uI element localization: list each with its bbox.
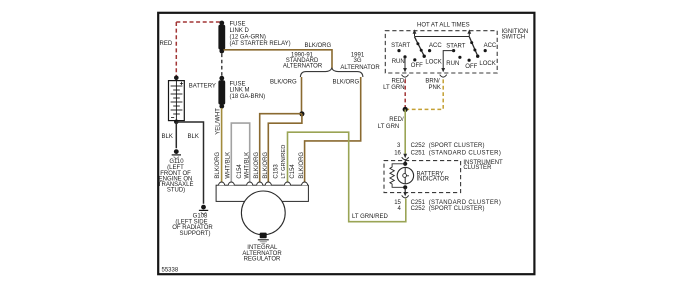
svg-text:55338: 55338 [162, 268, 179, 274]
svg-text:BLK: BLK [162, 134, 173, 140]
svg-text:(AT STARTER RELAY): (AT STARTER RELAY) [230, 41, 291, 47]
switch 1 contact OFF [411, 58, 423, 69]
label BRN/PNK [425, 79, 440, 91]
pin label BLK/ORG 10 (rotated) [299, 152, 305, 179]
wire BLK/ORG junction to pin A [260, 114, 302, 183]
pin label WHT/BLK 2 (rotated) [225, 152, 231, 179]
ground G110 [172, 149, 181, 159]
pin cup BLK/ORG A [257, 182, 263, 185]
svg-text:OFF: OFF [465, 64, 477, 70]
svg-text:BRN/: BRN/ [425, 79, 440, 85]
svg-text:FUSE: FUSE [230, 81, 246, 87]
label RED [160, 41, 173, 47]
wire LT GRN/RED alternator to instrument cluster [288, 132, 406, 222]
label G110 [158, 159, 194, 193]
wire switch feed bus [415, 36, 470, 38]
switch 1 contact RUN [392, 55, 407, 65]
wire out of cluster [404, 187, 406, 192]
switch 1 output wire and arrow [403, 57, 407, 72]
wire BLK/ORG from fuse D to option brace [224, 50, 333, 70]
wire BLK battery to G110 [175, 122, 177, 148]
svg-text:BLK: BLK [188, 134, 199, 140]
svg-text:16: 16 [394, 150, 401, 156]
svg-text:(SPORT CLUSTER): (SPORT CLUSTER) [429, 206, 485, 212]
pin label C153 7 (rotated) [273, 164, 279, 179]
svg-text:STUD): STUD) [167, 188, 185, 194]
svg-text:C251: C251 [411, 200, 426, 206]
svg-text:(STANDARD CLUSTER): (STANDARD CLUSTER) [429, 200, 502, 206]
svg-text:FUSE: FUSE [230, 21, 246, 27]
svg-text:BLK/ORG: BLK/ORG [215, 152, 221, 179]
feed arrow left [413, 29, 417, 36]
node cluster top junction [403, 162, 407, 166]
svg-text:RED/: RED/ [389, 117, 404, 123]
svg-text:RED: RED [160, 41, 173, 47]
label IGNITION SWITCH [502, 29, 529, 40]
feed arrow right [467, 29, 471, 36]
pin label C154 3 (rotated) [237, 164, 243, 179]
pin 3 C252 sport cluster [397, 143, 485, 149]
connector cup below switch 1 [402, 75, 409, 78]
wire WHT/BLK jumper loop [231, 123, 249, 183]
svg-text:LT GRN: LT GRN [383, 85, 404, 91]
label fuse link D [230, 21, 291, 47]
SECTION: cluster [384, 143, 503, 212]
svg-text:(STANDARD CLUSTER): (STANDARD CLUSTER) [429, 150, 502, 156]
svg-text:START: START [446, 44, 465, 50]
svg-text:C154: C154 [237, 164, 243, 179]
svg-text:LT GRN/RED: LT GRN/RED [281, 145, 287, 179]
connector cup below switch 2 [440, 75, 447, 78]
label RED/LT GRN lower [378, 117, 404, 130]
label fuse link M [230, 81, 266, 100]
pin 4 C252 sport cluster [398, 206, 485, 212]
pin cup WHT/BLK left [228, 182, 234, 185]
svg-text:15: 15 [394, 200, 401, 206]
node junction RED/LT GRN + BRN/PNK [403, 107, 408, 112]
switch 1 contact START [391, 43, 410, 52]
svg-text:BLK/ORG: BLK/ORG [270, 79, 297, 85]
svg-text:WHT/BLK: WHT/BLK [244, 152, 250, 179]
svg-text:RUN: RUN [392, 59, 405, 65]
option brace [300, 68, 363, 77]
pin cup BLK/ORG B [265, 182, 271, 185]
svg-text:OFF: OFF [411, 63, 423, 69]
svg-text:LT GRN: LT GRN [378, 124, 399, 130]
svg-text:BLK/ORG: BLK/ORG [305, 43, 332, 49]
switch 2 output wire and arrow [441, 51, 453, 73]
connector cup below cluster [402, 195, 409, 198]
connector arrow out of cluster [403, 192, 407, 196]
label BATTERY [189, 83, 216, 89]
alternator body [241, 191, 285, 235]
svg-text:(18 GA-BRN): (18 GA-BRN) [230, 94, 266, 100]
wire RED dashed battery feed (vertical) [175, 22, 177, 77]
wire dashed link between fuse D and fuse M [221, 54, 223, 76]
label BLK left [162, 134, 173, 140]
svg-text:ACC: ACC [429, 43, 442, 49]
pin label BLK/ORG 6 (rotated) [263, 152, 269, 179]
pin 15 C251 standard cluster [394, 200, 501, 206]
svg-text:REGULATOR: REGULATOR [244, 257, 281, 263]
wire BLK/ORG junction to pin B [268, 114, 302, 183]
label 1990-91 standard alternator [283, 53, 323, 70]
switch 1 contact ACC [428, 43, 442, 52]
label BLK/ORG left branch [270, 79, 297, 85]
svg-text:WHT/BLK: WHT/BLK [225, 152, 231, 179]
connector bar C154/C153 [216, 185, 308, 201]
label G108 [172, 214, 213, 237]
label BATTERY INDICATOR [417, 171, 450, 182]
wire BRN/PNK dashed [408, 79, 444, 109]
node junction BLK/ORG [299, 111, 304, 116]
label integral alternator regulator [242, 245, 282, 262]
label INSTRUMENT CLUSTER [463, 160, 503, 171]
battery [169, 76, 185, 125]
switch 2 contact START [446, 44, 465, 53]
wire BLK/ORG 3G-alternator branch [305, 77, 361, 183]
SECTION: alternator [215, 145, 308, 263]
switch 2 contact RUN [446, 56, 461, 67]
svg-text:RED/: RED/ [392, 79, 407, 85]
svg-text:ALTERNATOR: ALTERNATOR [283, 64, 323, 70]
svg-text:(12 GA-GRN): (12 GA-GRN) [230, 34, 266, 40]
svg-text:C252: C252 [411, 206, 426, 212]
wire YEL/WHT fuse M to alternator [221, 108, 223, 183]
node cluster bottom junction [403, 185, 407, 189]
svg-text:SUPPORT): SUPPORT) [180, 231, 211, 237]
svg-text:(SPORT CLUSTER): (SPORT CLUSTER) [429, 143, 485, 149]
svg-text:G110: G110 [169, 159, 184, 165]
pin label LT GRN/RED 8 (rotated) [281, 145, 287, 179]
pin label BLK/ORG 5 (rotated) [254, 152, 260, 179]
wire into cluster [404, 161, 406, 164]
svg-text:START: START [391, 43, 410, 49]
pin cup BLK/ORG 3G [302, 182, 308, 185]
resistor in cluster [390, 164, 405, 188]
label 1991 3G alternator [340, 52, 380, 71]
pin cup WHT/BLK right [247, 182, 253, 185]
pin cup LT GRN/RED [285, 182, 291, 185]
wire RED dashed battery feed (horizontal) [176, 21, 221, 23]
svg-text:SWITCH: SWITCH [502, 34, 526, 40]
svg-text:BLK/ORG: BLK/ORG [333, 79, 360, 85]
svg-text:C154: C154 [290, 164, 296, 179]
label RED/LT GRN upper [383, 79, 406, 91]
ground at alternator case [258, 233, 269, 244]
label YEL/WHT (rotated) [215, 108, 221, 135]
svg-text:C252: C252 [411, 143, 426, 149]
fuse link M (18 GA-BRN) [218, 76, 225, 109]
label BLK/ORG top [305, 43, 332, 49]
svg-text:YEL/WHT: YEL/WHT [215, 108, 221, 135]
label HOT AT ALL TIMES [417, 23, 470, 29]
pin 16 C251 standard cluster [394, 150, 501, 156]
switch 2 contact ACC [484, 43, 497, 52]
svg-text:LOCK: LOCK [479, 61, 495, 67]
pin cup YEL/WHT [219, 182, 225, 185]
connector arrow into cluster [403, 154, 407, 158]
SECTION: fuses [218, 21, 290, 109]
wire RED/LT GRN to cluster [404, 109, 406, 155]
svg-text:BATTERY: BATTERY [189, 83, 216, 89]
wire BLK branch to G108 [176, 122, 203, 204]
wire BLK/ORG standard-alternator branch [301, 77, 303, 112]
label BLK right [188, 134, 199, 140]
svg-text:LINK D: LINK D [230, 28, 250, 34]
pin label BLK/ORG 1 (rotated) [215, 152, 221, 179]
svg-text:INDICATOR: INDICATOR [417, 177, 450, 183]
svg-text:BLK/ORG: BLK/ORG [263, 152, 269, 179]
label LT GRN/RED horizontal [352, 214, 388, 220]
label BLK/ORG right branch [333, 79, 360, 85]
SECTION: ignition [378, 23, 528, 156]
svg-text:PNK: PNK [429, 85, 441, 91]
svg-text:C251: C251 [411, 150, 426, 156]
svg-text:LINK M: LINK M [230, 88, 250, 94]
svg-text:RUN: RUN [446, 61, 459, 67]
battery indicator lamp [397, 167, 413, 183]
switch 1 wiper [415, 37, 426, 58]
switch 2 contact OFF [465, 59, 477, 70]
switch 1 contact LOCK label [425, 59, 441, 65]
svg-text:BLK/ORG: BLK/ORG [299, 152, 305, 179]
svg-text:LT GRN/RED: LT GRN/RED [352, 214, 388, 220]
svg-text:C153: C153 [273, 164, 279, 179]
svg-text:ALTERNATOR: ALTERNATOR [340, 65, 380, 71]
svg-text:CLUSTER: CLUSTER [463, 165, 492, 171]
SECTION: middle [215, 43, 405, 222]
svg-text:3G: 3G [353, 58, 361, 64]
ignition switch box [385, 31, 497, 73]
ground G108 [199, 205, 208, 215]
SECTION: leftcolumn [158, 22, 221, 237]
svg-text:HOT AT ALL TIMES: HOT AT ALL TIMES [417, 23, 470, 29]
instrument cluster box [384, 161, 461, 193]
switch 2 wiper [469, 37, 479, 58]
wire RED/LT GRN dashed [404, 79, 406, 108]
pin label C154 9 (rotated) [290, 164, 296, 179]
svg-text:BLK/ORG: BLK/ORG [254, 152, 260, 179]
svg-text:LOCK: LOCK [425, 59, 441, 65]
fuse link D (12 GA-GRN) [218, 21, 225, 54]
connector cup at cluster top [402, 157, 409, 160]
svg-text:ACC: ACC [484, 43, 497, 49]
SECTION: frame [158, 13, 534, 274]
pin label WHT/BLK 4 (rotated) [244, 152, 250, 179]
switch 2 contact LOCK label [479, 61, 495, 67]
